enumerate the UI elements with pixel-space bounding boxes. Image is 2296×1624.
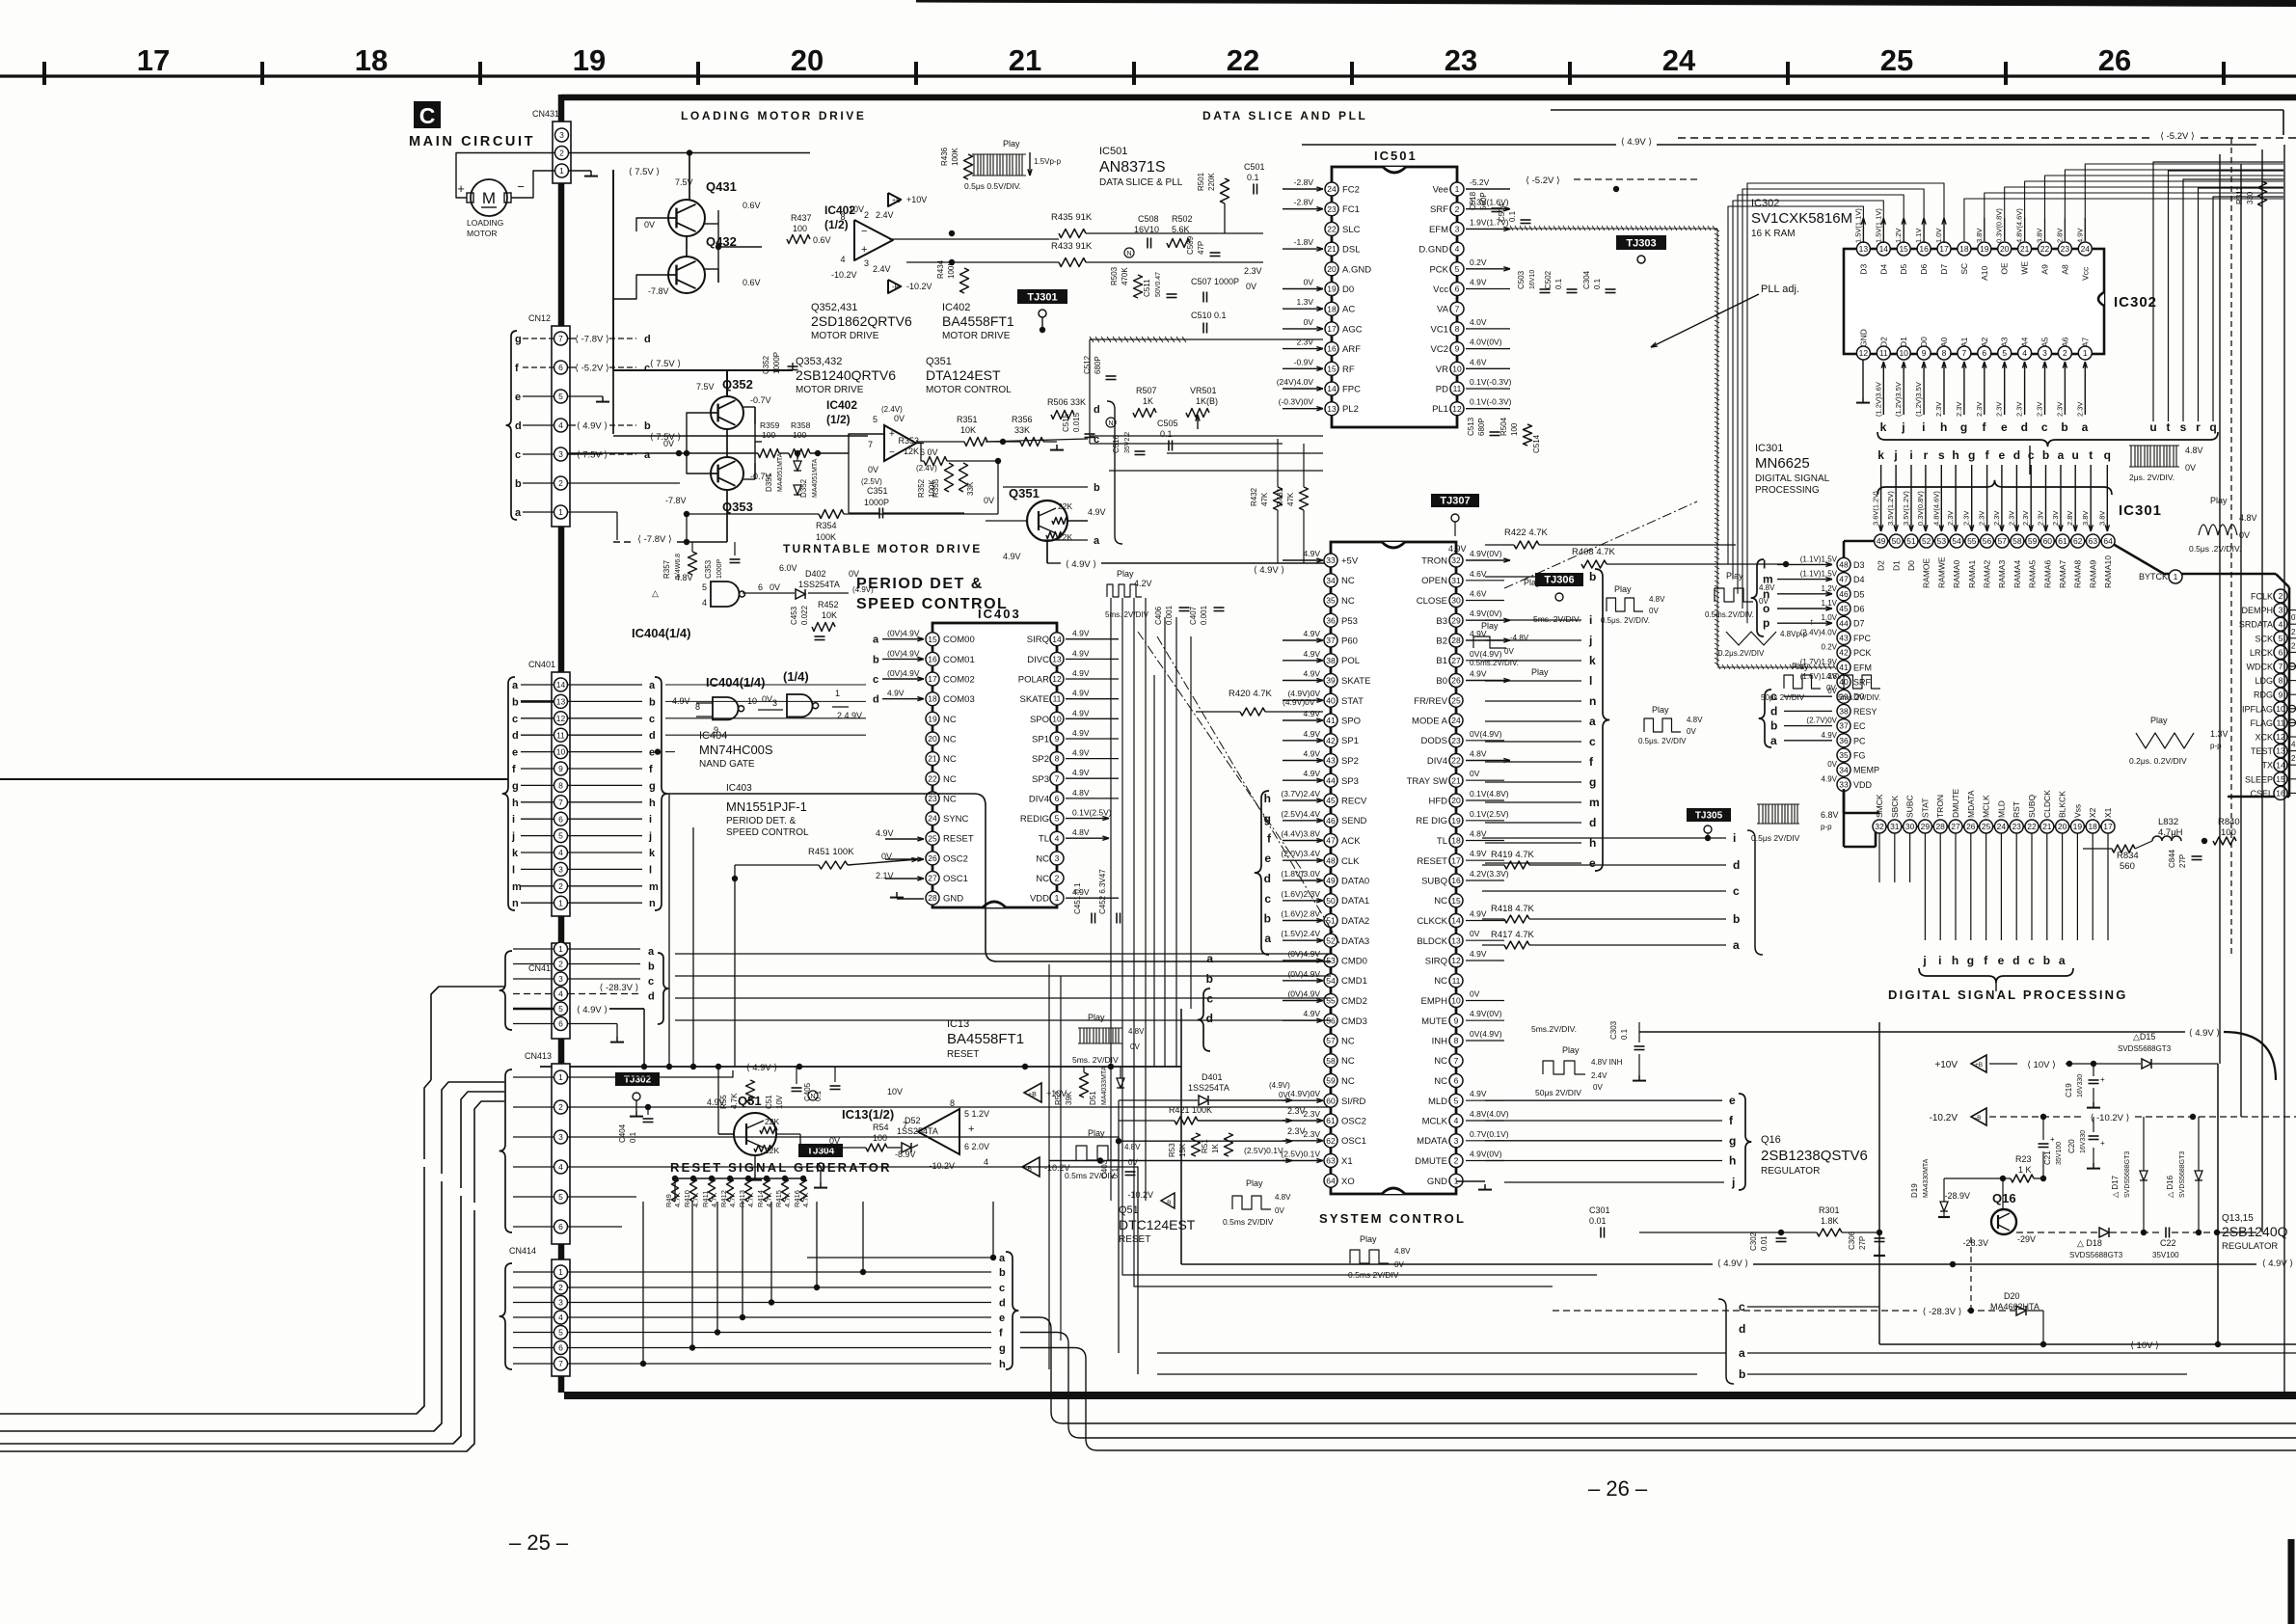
svg-text:2μs. 2V/DIV.: 2μs. 2V/DIV. (2129, 473, 2174, 482)
svg-text:R502: R502 (1172, 214, 1193, 224)
svg-text:3.8V: 3.8V (1975, 229, 1984, 243)
svg-text:C501: C501 (1244, 162, 1265, 172)
svg-text:g: g (1967, 954, 1974, 967)
svg-text:-10.2V: -10.2V (1127, 1190, 1153, 1200)
svg-text:7: 7 (558, 798, 563, 807)
svg-text:3: 3 (558, 865, 563, 875)
svg-text:STAT: STAT (1341, 696, 1364, 707)
svg-text:CSEL: CSEL (2250, 789, 2273, 798)
svg-text:IC13: IC13 (947, 1018, 969, 1030)
svg-text:4.9V: 4.9V (1072, 728, 1090, 738)
svg-text:15: 15 (1451, 896, 1461, 906)
svg-text:10: 10 (1899, 348, 1908, 358)
svg-text:19: 19 (573, 43, 606, 77)
svg-text:1.5V(1.1V): 1.5V(1.1V) (1853, 208, 1862, 243)
svg-text:4.9V: 4.9V (1072, 689, 1090, 698)
svg-text:7: 7 (2279, 662, 2283, 671)
svg-text:5: 5 (2279, 634, 2283, 643)
svg-text:R49: R49 (664, 1194, 673, 1207)
svg-text:50V0.47: 50V0.47 (1155, 272, 1162, 297)
svg-text:(1.8V)3.0V: (1.8V)3.0V (1281, 869, 1320, 879)
svg-text:25: 25 (1880, 43, 1913, 77)
svg-text:e: e (649, 747, 655, 759)
svg-text:⟨ -7.8V ⟩: ⟨ -7.8V ⟩ (637, 534, 672, 545)
svg-text:MODE A: MODE A (1412, 717, 1448, 727)
svg-text:1.0V: 1.0V (1934, 229, 1943, 243)
svg-text:IC301: IC301 (2119, 502, 2162, 519)
svg-text:0V: 0V (1649, 607, 1659, 615)
svg-text:0V: 0V (644, 220, 655, 230)
svg-text:C21: C21 (2043, 1150, 2052, 1165)
svg-text:CLKCK: CLKCK (1417, 916, 1447, 927)
svg-text:9: 9 (2279, 690, 2283, 699)
svg-text:44: 44 (1326, 775, 1336, 785)
svg-text:c: c (2028, 954, 2035, 967)
svg-text:4.8V: 4.8V (2185, 446, 2203, 455)
svg-text:Q51: Q51 (738, 1094, 762, 1108)
svg-text:4.9V: 4.9V (1822, 774, 1838, 783)
svg-text:14: 14 (1879, 244, 1889, 254)
svg-text:4.9V: 4.9V (876, 828, 894, 838)
svg-text:-B: -B (892, 284, 899, 291)
svg-text:h: h (1264, 792, 1271, 805)
svg-text:3: 3 (864, 258, 869, 268)
svg-text:3.8V: 3.8V (2097, 511, 2106, 526)
svg-text:13: 13 (1859, 244, 1869, 254)
svg-text:5ms. 2V/DIV.: 5ms. 2V/DIV. (1533, 614, 1580, 624)
svg-text:C508: C508 (1138, 214, 1159, 224)
svg-text:22: 22 (1451, 756, 1461, 766)
svg-text:5: 5 (558, 1192, 563, 1202)
svg-text:GND: GND (943, 894, 963, 905)
svg-text:4.8V: 4.8V (1470, 829, 1487, 839)
svg-text:REDIG: REDIG (1020, 814, 1049, 825)
svg-text:DATA2: DATA2 (1341, 916, 1369, 927)
svg-text:d: d (2013, 448, 2020, 462)
svg-text:7: 7 (868, 440, 873, 449)
svg-text:-10.2V: -10.2V (1930, 1113, 1958, 1123)
svg-text:0.5μs 0.5V/DIV.: 0.5μs 0.5V/DIV. (964, 181, 1021, 191)
svg-text:8: 8 (1055, 754, 1060, 764)
svg-text:26: 26 (1966, 822, 1976, 831)
svg-text:Vcc: Vcc (2080, 266, 2090, 281)
svg-text:21: 21 (1451, 775, 1461, 785)
svg-text:SP1: SP1 (1341, 736, 1359, 746)
svg-text:EFM: EFM (1853, 663, 1872, 672)
svg-text:4.9V: 4.9V (1822, 731, 1838, 740)
svg-text:22K: 22K (765, 1117, 779, 1126)
svg-text:1SS254TA: 1SS254TA (1188, 1083, 1229, 1093)
svg-text:0.3V(0.8V): 0.3V(0.8V) (1916, 491, 1925, 526)
svg-text:2.3V: 2.3V (2037, 511, 2045, 526)
svg-text:SPEED CONTROL: SPEED CONTROL (726, 827, 809, 838)
svg-text:-28.3V: -28.3V (1962, 1238, 1988, 1248)
svg-text:52: 52 (1922, 536, 1931, 546)
svg-text:△ D18: △ D18 (2077, 1238, 2102, 1248)
svg-text:XO: XO (1341, 1177, 1355, 1187)
svg-text:4.8V: 4.8V (1649, 595, 1665, 604)
svg-text:MDATA: MDATA (1966, 790, 1976, 818)
svg-text:IC302: IC302 (2114, 294, 2157, 311)
svg-text:4.8V: 4.8V (1759, 583, 1775, 592)
svg-text:b: b (1264, 912, 1271, 926)
svg-text:8: 8 (1942, 348, 1947, 358)
svg-text:SVDS5688GT3: SVDS5688GT3 (2118, 1044, 2172, 1053)
svg-text:B2: B2 (1436, 636, 1447, 647)
svg-text:2.3V: 2.3V (1304, 1109, 1321, 1119)
svg-text:DATA SLICE & PLL: DATA SLICE & PLL (1099, 177, 1183, 188)
svg-text:0V: 0V (1394, 1260, 1404, 1269)
svg-text:4.9V(0V): 4.9V(0V) (1470, 1009, 1502, 1018)
svg-text:5: 5 (1455, 264, 1460, 274)
svg-text:0.5ms 2V/DIV: 0.5ms 2V/DIV (1348, 1270, 1399, 1280)
svg-text:DIGITAL SIGNAL: DIGITAL SIGNAL (1755, 474, 1830, 484)
svg-text:11: 11 (1453, 384, 1462, 393)
svg-text:C407: C407 (1189, 606, 1198, 625)
svg-text:RAMA5: RAMA5 (2028, 559, 2038, 588)
svg-text:4.9V: 4.9V (1304, 769, 1321, 778)
svg-text:24: 24 (1327, 184, 1337, 194)
svg-text:53: 53 (1937, 536, 1947, 546)
svg-text:7: 7 (558, 334, 563, 343)
svg-text:3.5V(1.2V): 3.5V(1.2V) (1886, 491, 1895, 526)
svg-text:24: 24 (1451, 716, 1461, 725)
svg-text:35V100: 35V100 (2056, 1142, 2063, 1165)
svg-text:TJ306: TJ306 (1544, 575, 1574, 586)
svg-text:4: 4 (984, 1157, 988, 1167)
svg-text:CN413: CN413 (525, 1051, 552, 1061)
svg-text:(1.1V)1.5V: (1.1V)1.5V (1800, 555, 1838, 563)
svg-text:RAMA3: RAMA3 (1997, 559, 2007, 588)
svg-text:VDD: VDD (1853, 780, 1873, 790)
svg-text:Play: Play (1652, 705, 1669, 715)
svg-text:4.9V: 4.9V (1470, 949, 1487, 959)
svg-text:FC1: FC1 (1342, 204, 1360, 215)
svg-text:VR501: VR501 (1190, 386, 1217, 395)
svg-text:55: 55 (1326, 996, 1336, 1006)
svg-text:A6: A6 (2060, 337, 2069, 347)
svg-text:b: b (1733, 912, 1740, 926)
svg-text:Play: Play (1726, 571, 1743, 581)
svg-text:5.6K: 5.6K (1172, 225, 1190, 234)
svg-text:4.9V: 4.9V (2291, 741, 2296, 749)
svg-text:0.5ms 2V/DIV: 0.5ms 2V/DIV (1223, 1217, 1274, 1227)
svg-text:g: g (512, 780, 519, 792)
svg-text:SUBC: SUBC (1905, 795, 1915, 818)
svg-text:a: a (2082, 420, 2089, 434)
svg-text:b: b (873, 654, 879, 665)
svg-text:k: k (512, 848, 519, 859)
svg-text:(1/2): (1/2) (826, 413, 851, 426)
svg-text:b: b (1206, 972, 1213, 986)
svg-text:R419 4.7K: R419 4.7K (1491, 850, 1535, 860)
svg-text:57: 57 (1997, 536, 2007, 546)
svg-text:Play: Play (2150, 716, 2168, 725)
svg-text:OE: OE (2000, 262, 2010, 275)
svg-text:MDATA: MDATA (1417, 1136, 1448, 1147)
svg-text:R352: R352 (917, 478, 926, 498)
svg-text:f: f (649, 764, 653, 775)
svg-text:48: 48 (1326, 855, 1336, 865)
svg-text:100: 100 (2221, 827, 2236, 838)
svg-text:50: 50 (1892, 536, 1902, 546)
svg-text:4.9V: 4.9V (1088, 507, 1106, 517)
svg-text:4.9V: 4.9V (1470, 909, 1487, 919)
svg-text:2.3V: 2.3V (1995, 402, 2004, 417)
svg-text:⟨ -28.3V ⟩: ⟨ -28.3V ⟩ (600, 983, 639, 993)
svg-text:2: 2 (558, 960, 563, 969)
svg-text:RF: RF (1342, 365, 1355, 375)
svg-text:38: 38 (1326, 656, 1336, 665)
svg-text:0V: 0V (849, 569, 859, 579)
svg-text:4: 4 (558, 848, 563, 857)
svg-text:(2.5V)0.1V: (2.5V)0.1V (1244, 1146, 1283, 1155)
svg-text:2.4V: 2.4V (2291, 641, 2296, 650)
svg-text:4.9V: 4.9V (1072, 668, 1090, 678)
svg-text:17: 17 (2103, 822, 2113, 831)
svg-text:10: 10 (556, 747, 566, 757)
svg-text:2.3V: 2.3V (1934, 402, 1943, 417)
svg-text:0.1V(-0.3V): 0.1V(-0.3V) (1470, 397, 1512, 407)
svg-text:2.3V: 2.3V (2007, 511, 2015, 526)
svg-text:REGULATOR: REGULATOR (1761, 1166, 1820, 1177)
svg-text:NC: NC (943, 754, 957, 765)
svg-text:1: 1 (2083, 348, 2088, 358)
svg-text:20: 20 (2000, 244, 2010, 254)
svg-text:7: 7 (1055, 773, 1060, 783)
svg-text:R433 91K: R433 91K (1051, 241, 1093, 252)
svg-text:20: 20 (1327, 264, 1337, 274)
svg-text:9: 9 (1454, 1015, 1459, 1025)
svg-text:SVDS5688GT3: SVDS5688GT3 (2179, 1151, 2186, 1198)
svg-text:3.8V: 3.8V (2036, 229, 2044, 243)
svg-text:3: 3 (1454, 1136, 1459, 1146)
svg-text:CN414: CN414 (509, 1246, 536, 1256)
svg-text:13: 13 (556, 697, 566, 707)
svg-text:△D15: △D15 (2133, 1032, 2155, 1042)
svg-text:q: q (2209, 420, 2216, 434)
svg-text:IC403: IC403 (726, 783, 752, 794)
svg-text:R54: R54 (873, 1123, 889, 1132)
svg-text:i: i (1909, 448, 1912, 462)
svg-text:R420 4.7K: R420 4.7K (1229, 689, 1273, 699)
svg-text:18: 18 (355, 43, 388, 77)
svg-text:7: 7 (1454, 1056, 1459, 1066)
svg-text:TJ305: TJ305 (1695, 811, 1723, 822)
svg-text:MA4033MTA: MA4033MTA (1101, 1066, 1108, 1105)
svg-text:MEMP: MEMP (1853, 766, 1879, 775)
svg-text:R501: R501 (1197, 172, 1205, 191)
svg-text:NC: NC (1341, 596, 1355, 607)
svg-text:-0.7V: -0.7V (750, 395, 771, 405)
svg-text:−: − (517, 179, 525, 194)
svg-text:b: b (2043, 954, 2050, 967)
svg-text:2.4V: 2.4V (876, 210, 894, 220)
svg-text:50: 50 (1326, 896, 1336, 906)
svg-text:C503: C503 (1517, 270, 1526, 289)
svg-text:4.6V: 4.6V (1470, 569, 1487, 579)
svg-text:MCLK: MCLK (1982, 795, 1991, 818)
svg-text:31: 31 (1890, 822, 1900, 831)
svg-text:⟨ 4.9V ⟩: ⟨ 4.9V ⟩ (1621, 137, 1653, 148)
svg-text:Play: Play (2210, 496, 2228, 505)
svg-text:NAND GATE: NAND GATE (699, 759, 755, 770)
svg-text:R301: R301 (1819, 1205, 1840, 1215)
svg-text:34: 34 (1839, 765, 1849, 774)
svg-text:2SD1862QRTV6: 2SD1862QRTV6 (811, 313, 912, 329)
svg-text:28: 28 (1935, 822, 1945, 831)
svg-text:0V: 0V (1826, 684, 1836, 692)
svg-text:32: 32 (1451, 555, 1461, 565)
svg-text:Play: Play (1614, 584, 1632, 594)
svg-text:RESET: RESET (947, 1049, 979, 1060)
svg-text:⟨ 7.5V ⟩: ⟨ 7.5V ⟩ (577, 450, 608, 461)
svg-text:0.01: 0.01 (1589, 1216, 1607, 1226)
svg-text:2SB1240Q: 2SB1240Q (2222, 1224, 2288, 1239)
svg-text:k: k (649, 848, 656, 859)
svg-text:NC: NC (1036, 874, 1049, 884)
svg-text:4: 4 (1455, 244, 1460, 254)
svg-text:5: 5 (1454, 1096, 1459, 1105)
svg-text:R435 91K: R435 91K (1051, 212, 1093, 223)
svg-text:MAIN CIRCUIT: MAIN CIRCUIT (409, 134, 535, 149)
svg-text:19: 19 (2073, 822, 2083, 831)
svg-text:63: 63 (2089, 536, 2098, 546)
svg-text:WE: WE (2020, 261, 2030, 275)
svg-text:2SB1240QRTV6: 2SB1240QRTV6 (796, 367, 896, 383)
svg-text:D0: D0 (1906, 560, 1916, 571)
svg-text:4.8V: 4.8V (1394, 1247, 1411, 1256)
svg-text:12: 12 (1451, 956, 1461, 965)
svg-text:TX: TX (2261, 761, 2273, 771)
svg-text:IC403: IC403 (978, 607, 1021, 621)
svg-text:9: 9 (1055, 734, 1060, 744)
svg-text:TJ303: TJ303 (1626, 238, 1656, 250)
svg-text:RAMWE: RAMWE (1936, 556, 1946, 588)
svg-text:3.6V(1.2V): 3.6V(1.2V) (1872, 491, 1880, 526)
svg-text:5: 5 (702, 582, 707, 592)
svg-text:(0V)4.9V: (0V)4.9V (887, 648, 920, 658)
svg-text:39: 39 (1326, 676, 1336, 686)
svg-text:Vss: Vss (2072, 804, 2082, 818)
svg-text:4.8V: 4.8V (2239, 513, 2257, 523)
svg-text:a: a (1733, 938, 1740, 952)
svg-text:(4.9V): (4.9V) (1269, 1081, 1290, 1090)
svg-text:R437: R437 (791, 213, 812, 223)
svg-text:(1.6V)2.8V: (1.6V)2.8V (1281, 909, 1320, 919)
svg-text:n: n (649, 898, 656, 909)
svg-text:POL: POL (1341, 656, 1360, 666)
svg-text:X1: X1 (2103, 807, 2113, 818)
svg-text:RAMA10: RAMA10 (2103, 555, 2113, 588)
svg-text:FPC: FPC (1342, 385, 1361, 395)
svg-text:0.1: 0.1 (1508, 210, 1517, 222)
svg-text:62: 62 (2073, 536, 2083, 546)
svg-text:MLD: MLD (1428, 1096, 1447, 1107)
svg-text:2.3V: 2.3V (2075, 402, 2084, 417)
svg-text:BLKCK: BLKCK (2058, 791, 2067, 818)
svg-text:-8.9V: -8.9V (895, 1150, 916, 1159)
svg-text:IC501: IC501 (1374, 149, 1418, 163)
svg-text:h: h (1729, 1154, 1736, 1168)
svg-text:5: 5 (558, 831, 563, 841)
svg-text:Q16: Q16 (1761, 1134, 1781, 1146)
svg-text:12: 12 (1452, 404, 1462, 414)
svg-text:COM02: COM02 (943, 675, 975, 686)
svg-text:0.022: 0.022 (800, 605, 809, 625)
svg-text:4.8V(4.6V): 4.8V(4.6V) (1931, 491, 1940, 526)
svg-text:37: 37 (1839, 721, 1849, 731)
svg-text:C452 6.3V47: C452 6.3V47 (1098, 869, 1107, 914)
svg-text:PERIOD DET &: PERIOD DET & (856, 576, 984, 592)
svg-text:(2.5V)0.1V: (2.5V)0.1V (1281, 1150, 1320, 1159)
svg-text:29: 29 (1921, 822, 1931, 831)
svg-text:22: 22 (1227, 43, 1259, 77)
svg-text:BA4558FT1: BA4558FT1 (942, 313, 1014, 329)
svg-text:D1: D1 (1899, 337, 1908, 347)
svg-text:D51: D51 (1089, 1091, 1097, 1105)
svg-text:NC: NC (943, 794, 957, 804)
svg-text:0.5μs. 2V/DIV: 0.5μs. 2V/DIV (1638, 737, 1687, 745)
svg-text:2.4V: 2.4V (873, 264, 891, 274)
svg-text:0.01: 0.01 (1760, 1235, 1769, 1251)
svg-text:53: 53 (1326, 956, 1336, 965)
svg-text:+: + (861, 244, 867, 256)
svg-text:d: d (1094, 404, 1100, 416)
svg-text:100: 100 (793, 224, 807, 233)
svg-text:b: b (2042, 448, 2049, 462)
svg-text:-5.2V: -5.2V (1470, 177, 1490, 187)
svg-text:0.1: 0.1 (1160, 429, 1173, 439)
svg-text:+B: +B (1975, 1062, 1983, 1069)
svg-text:5 1.2V: 5 1.2V (964, 1109, 989, 1119)
svg-text:0V: 0V (1130, 1042, 1140, 1051)
svg-text:NC: NC (1434, 896, 1447, 907)
svg-text:NC: NC (1341, 1056, 1355, 1067)
svg-text:LRCK: LRCK (2250, 648, 2273, 658)
svg-text:64: 64 (2103, 536, 2113, 546)
svg-text:⟨ 4.9V ⟩: ⟨ 4.9V ⟩ (577, 421, 608, 432)
svg-text:0V(4.9V): 0V(4.9V) (1470, 1029, 1502, 1039)
svg-text:(-0.3V)0V: (-0.3V)0V (1279, 397, 1314, 407)
svg-text:2.2V: 2.2V (2291, 754, 2296, 763)
svg-text:C511: C511 (1143, 279, 1151, 297)
svg-text:D2: D2 (1878, 337, 1888, 347)
svg-text:4.9V: 4.9V (1072, 648, 1090, 658)
svg-text:b: b (649, 696, 656, 708)
svg-text:4.8V: 4.8V (1470, 749, 1487, 759)
svg-text:C507 1000P: C507 1000P (1191, 277, 1239, 286)
svg-text:4.9V: 4.9V (1072, 708, 1090, 717)
svg-text:14: 14 (1451, 916, 1461, 926)
svg-text:4.8V: 4.8V (1826, 672, 1843, 681)
svg-text:IC402: IC402 (942, 302, 970, 313)
svg-text:37: 37 (1326, 636, 1336, 645)
svg-text:(0V)4.9V: (0V)4.9V (1287, 989, 1320, 999)
svg-text:24: 24 (928, 814, 937, 824)
svg-text:26: 26 (1451, 676, 1461, 686)
svg-text:0.5ms.2V/DIV.: 0.5ms.2V/DIV. (1470, 659, 1519, 667)
svg-text:4: 4 (558, 989, 563, 999)
svg-text:RAMA1: RAMA1 (1967, 559, 1977, 588)
svg-text:100K: 100K (816, 532, 836, 542)
svg-text:30: 30 (1451, 596, 1461, 606)
svg-text:Q351: Q351 (1009, 486, 1040, 501)
svg-text:63: 63 (1326, 1156, 1336, 1166)
svg-text:SP2: SP2 (1032, 754, 1049, 765)
svg-text:21: 21 (1327, 244, 1337, 254)
svg-text:330: 330 (2246, 191, 2255, 204)
